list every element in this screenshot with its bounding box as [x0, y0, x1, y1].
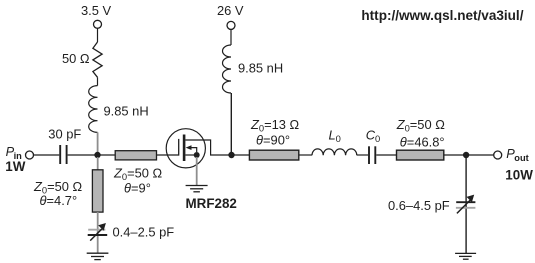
url caption	[361, 8, 523, 23]
wire C0 to TL3	[376, 154, 396, 156]
terminal Pout	[494, 151, 502, 159]
label 0.6-4.5 pF	[388, 198, 450, 213]
wire L0 to C0	[357, 154, 368, 156]
label Z0=50 ohm (series input)	[113, 166, 163, 183]
label 9.85 nH right	[238, 60, 283, 75]
wire drain node to TL1	[232, 154, 250, 156]
wire Pin to capacitor	[34, 154, 60, 156]
label theta=9	[124, 180, 151, 195]
wire TL3 to output node and Pout	[444, 154, 494, 156]
svg-text:9.85 nH: 9.85 nH	[238, 60, 283, 75]
wire TL1 to L0	[299, 154, 312, 156]
wire terminal to drain inductor	[230, 29, 232, 45]
terminal 26V supply	[227, 21, 235, 29]
svg-text:50 Ω: 50 Ω	[62, 51, 90, 66]
label 30 pF	[48, 127, 81, 142]
capacitor 30 pF	[60, 145, 66, 164]
label Z0=13 ohm	[250, 117, 300, 134]
svg-text:26 V: 26 V	[217, 3, 244, 18]
wire input node to shunt stub (gray)	[97, 157, 99, 171]
variable capacitor 0.6-4.5 pF	[456, 195, 476, 214]
svg-text:1W: 1W	[5, 159, 25, 174]
wire terminal to resistor	[97, 28, 99, 42]
node input junction	[94, 152, 100, 158]
port Pin label	[6, 144, 23, 161]
label 9.85 nH left	[104, 104, 149, 119]
wire stub to variable capacitor (gray)	[97, 212, 99, 253]
ground output	[455, 253, 476, 259]
svg-text:θ=90°: θ=90°	[256, 132, 290, 147]
inductor 9.85 nH input bias	[89, 86, 98, 133]
label L0	[329, 128, 341, 145]
svg-text:θ=9°: θ=9°	[124, 180, 151, 195]
label Z0=50 ohm output	[396, 117, 446, 134]
svg-text:out: out	[514, 153, 528, 163]
node output junction	[463, 152, 469, 158]
label Z0=50 ohm (shunt stub)	[33, 179, 83, 196]
svg-text:http://www.qsl.net/va3iul/: http://www.qsl.net/va3iul/	[361, 8, 523, 23]
label 10W	[505, 168, 533, 183]
wire capacitor to input node	[68, 154, 115, 156]
svg-text:MRF282: MRF282	[186, 196, 237, 211]
label 0.4-2.5 pF	[113, 225, 175, 240]
variable capacitor 0.4-2.5 pF	[88, 223, 108, 241]
label theta=90	[256, 132, 290, 147]
label 3.5 V	[81, 3, 112, 18]
ground input stub	[87, 253, 109, 259]
transmission line Z0=13 theta=90	[249, 150, 298, 160]
terminal 3.5V supply	[94, 20, 102, 28]
inductor 9.85 nH drain bias	[223, 45, 232, 93]
wire TL to gate	[157, 154, 179, 156]
svg-text:10W: 10W	[505, 168, 533, 183]
inductor L0	[312, 149, 357, 155]
label MRF282	[186, 196, 237, 211]
label theta=46.8	[400, 134, 445, 149]
svg-text:3.5 V: 3.5 V	[81, 3, 112, 18]
label C0	[366, 128, 381, 145]
label 26 V	[217, 3, 244, 18]
ground source	[186, 186, 208, 192]
transistor Q1 MRF282	[166, 129, 231, 168]
transmission line Z0=50 theta=9 series	[115, 151, 156, 160]
wire resistor to inductor	[97, 77, 99, 85]
transmission line Z0=50 theta=46.8	[397, 150, 444, 160]
svg-text:Z0=50 Ω: Z0=50 Ω	[396, 117, 446, 134]
wire inductor to drain node	[230, 93, 232, 155]
svg-text:9.85 nH: 9.85 nH	[104, 104, 149, 119]
wire inductor to input node (gray)	[97, 132, 99, 153]
svg-text:θ=46.8°: θ=46.8°	[400, 134, 445, 149]
label 1W	[5, 159, 25, 174]
resistor R 50 ohm	[93, 42, 102, 77]
svg-text:30 pF: 30 pF	[48, 127, 81, 142]
svg-text:Z0=13 Ω: Z0=13 Ω	[250, 117, 300, 134]
node drain junction	[228, 152, 234, 158]
wire source to ground (gray)	[196, 157, 198, 185]
terminal Pin	[26, 151, 34, 159]
capacitor C0	[369, 146, 375, 164]
svg-text:θ=4.7°: θ=4.7°	[40, 193, 78, 208]
wire output node down to variable capacitor and ground	[465, 155, 467, 253]
svg-text:0.6–4.5 pF: 0.6–4.5 pF	[388, 198, 450, 213]
transmission line Z0=50 theta=4.7 shunt stub	[92, 170, 103, 212]
port Pout label	[506, 146, 529, 163]
svg-text:0.4–2.5 pF: 0.4–2.5 pF	[113, 225, 175, 240]
label theta=4.7 (shunt stub)	[40, 193, 78, 208]
label 50 ohm	[62, 51, 90, 66]
